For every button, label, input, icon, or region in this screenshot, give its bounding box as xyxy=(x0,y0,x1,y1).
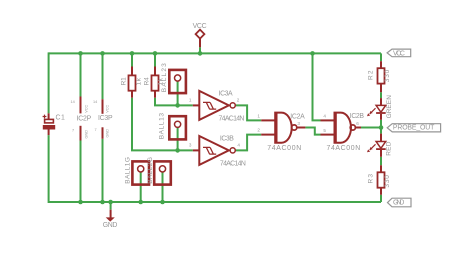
svg-text:330: 330 xyxy=(384,175,391,188)
svg-text:6: 6 xyxy=(356,121,359,126)
svg-text:3: 3 xyxy=(189,143,192,148)
svg-text:IC2P: IC2P xyxy=(77,115,92,122)
svg-text:R3: R3 xyxy=(368,174,375,184)
svg-text:PROBE_OUT: PROBE_OUT xyxy=(393,125,435,132)
svg-text:R1: R1 xyxy=(120,77,127,86)
svg-text:74AC14N: 74AC14N xyxy=(219,116,245,123)
svg-text:2: 2 xyxy=(237,98,240,103)
svg-text:IC3B: IC3B xyxy=(220,135,234,142)
svg-text:BALL23: BALL23 xyxy=(161,63,168,92)
svg-text:GND: GND xyxy=(103,222,118,229)
svg-text:BALL13: BALL13 xyxy=(159,113,166,140)
svg-text:IC3A: IC3A xyxy=(219,90,233,97)
svg-text:GND: GND xyxy=(393,199,404,206)
svg-text:330: 330 xyxy=(384,69,391,82)
svg-text:14: 14 xyxy=(71,100,75,104)
svg-text:IC3P: IC3P xyxy=(98,115,113,122)
svg-text:7: 7 xyxy=(95,128,97,132)
svg-text:1: 1 xyxy=(257,113,260,118)
svg-text:2: 2 xyxy=(257,128,260,133)
svg-text:4: 4 xyxy=(323,114,326,119)
svg-text:4: 4 xyxy=(237,143,240,148)
svg-text:3: 3 xyxy=(297,121,300,126)
svg-text:7: 7 xyxy=(72,129,74,133)
svg-text:5: 5 xyxy=(323,128,326,133)
svg-text:VCC: VCC xyxy=(106,105,110,113)
svg-text:BALL1G: BALL1G xyxy=(125,157,132,184)
svg-text:C1: C1 xyxy=(56,115,65,122)
svg-text:14: 14 xyxy=(93,100,97,104)
svg-text:BALL2G: BALL2G xyxy=(147,157,154,184)
svg-text:1: 1 xyxy=(189,98,192,103)
svg-text:VCC: VCC xyxy=(393,50,405,57)
svg-text:IC2B: IC2B xyxy=(350,113,365,120)
svg-text:RED: RED xyxy=(386,141,393,155)
svg-text:VCC: VCC xyxy=(84,105,88,113)
svg-text:VCC: VCC xyxy=(193,23,207,30)
svg-text:GND: GND xyxy=(84,130,88,139)
svg-text:74AC00N: 74AC00N xyxy=(327,145,361,152)
svg-text:IC2A: IC2A xyxy=(290,114,305,121)
svg-text:GREEN: GREEN xyxy=(386,95,393,119)
svg-text:1k: 1k xyxy=(136,77,143,85)
svg-text:74AC14N: 74AC14N xyxy=(220,160,246,167)
svg-text:GND: GND xyxy=(106,129,110,138)
svg-text:74AC00N: 74AC00N xyxy=(267,145,301,152)
svg-text:R4: R4 xyxy=(144,77,151,86)
svg-text:R2: R2 xyxy=(368,70,375,80)
